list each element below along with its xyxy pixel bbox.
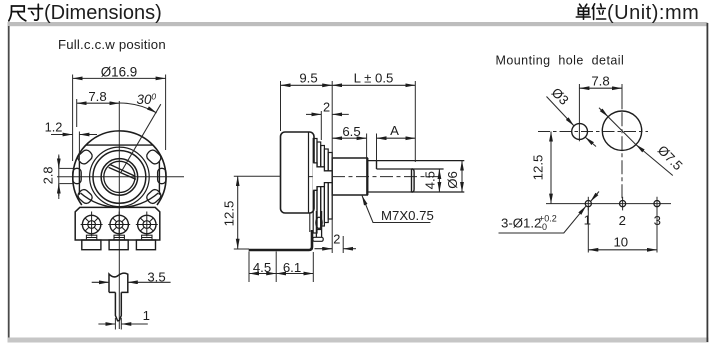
holes row line xyxy=(546,203,671,205)
stair plate 5 xyxy=(328,153,332,220)
dim 1 ext lines xyxy=(114,318,116,330)
header left: hand-drawn 尺 glyph xyxy=(9,6,26,21)
dim O16.9 line xyxy=(73,77,166,79)
svg-text:12.5: 12.5 xyxy=(531,155,546,181)
body outer circle (clipped at block) xyxy=(73,131,166,205)
bottom-right notch xyxy=(145,188,163,206)
svg-text:2: 2 xyxy=(323,100,330,115)
dim 1 left arrow xyxy=(98,323,115,325)
header right: hand-drawn 单 glyph xyxy=(576,4,590,19)
ext line L/A right xyxy=(414,81,416,162)
dim O16.9 ext right xyxy=(165,75,167,151)
shaft flat step xyxy=(376,161,378,169)
slot line 1 xyxy=(110,164,136,176)
threaded bushing xyxy=(332,158,367,195)
30 degree arc with arrow xyxy=(119,103,156,113)
bushing neck white-out steps xyxy=(313,163,318,190)
rivet 2 xyxy=(108,212,130,237)
dim 2 top ext xyxy=(320,111,322,140)
svg-text:Ø6: Ø6 xyxy=(445,171,460,189)
bushing face thick edge xyxy=(366,158,368,195)
ext datum line xyxy=(331,81,333,253)
stair plate 4 xyxy=(324,149,328,223)
dim 2.8 top arrow xyxy=(58,156,60,168)
svg-text:10: 10 xyxy=(613,235,628,250)
ext line 9.5 left xyxy=(280,81,282,131)
svg-text:7.8: 7.8 xyxy=(88,89,106,104)
svg-text:12.5: 12.5 xyxy=(222,201,237,227)
svg-text:300: 300 xyxy=(137,92,157,108)
svg-text:2.8: 2.8 xyxy=(41,167,56,185)
shaft bottom edge and O6 ext xyxy=(367,191,464,193)
dim 7.8 ext xyxy=(76,99,78,127)
dim 2 top right arrow xyxy=(332,113,349,115)
dim 4.5 bottom line xyxy=(249,273,276,275)
stair plate 2 xyxy=(317,142,321,230)
shaft flat line and 4.5 ext xyxy=(377,168,444,170)
hole 1 xyxy=(585,197,591,211)
dim 1 right arrow xyxy=(121,323,148,325)
collar 3 xyxy=(142,235,152,240)
dim 7.8 ext left / small hole centerline xyxy=(578,84,580,141)
dim 9.5 line xyxy=(281,84,333,86)
stair plate 1 xyxy=(313,139,317,234)
rear terminal edge xyxy=(309,213,311,232)
svg-text:Ø16.9: Ø16.9 xyxy=(101,65,137,80)
dim 2 bottom left arrow xyxy=(315,248,333,250)
frame top gray bar xyxy=(8,22,708,26)
pin detail xyxy=(92,270,171,330)
hole 2 xyxy=(620,197,626,211)
cover bottom shallow arc xyxy=(81,193,159,208)
svg-text:2: 2 xyxy=(619,213,626,228)
svg-text:4.5: 4.5 xyxy=(253,260,271,275)
cover hole circle xyxy=(90,147,150,207)
dim 4.5/6.1 ext lines xyxy=(248,252,250,283)
holes horizontal centerline xyxy=(538,131,648,133)
dim 2.8 ext top xyxy=(60,167,74,169)
header left: hand-drawn 寸 glyph xyxy=(29,4,43,20)
collar 1 xyxy=(86,235,96,240)
dim A ext xyxy=(376,134,378,161)
svg-text:A: A xyxy=(390,123,399,138)
hole 3 xyxy=(654,197,660,211)
dim 2 top left arrow xyxy=(306,113,321,115)
slot line 2 xyxy=(109,167,136,179)
dim 4.5 line xyxy=(438,169,440,192)
O7.5 leader with diameter line xyxy=(599,108,608,117)
bottom-left notch xyxy=(76,188,94,206)
dim 2 bottom ext xyxy=(342,236,344,253)
side body xyxy=(281,132,315,213)
svg-text:6.1: 6.1 xyxy=(283,260,301,275)
O3 leader upper xyxy=(547,97,575,126)
dim 7.8 ext right xyxy=(621,84,623,109)
svg-text:3.5: 3.5 xyxy=(147,270,165,285)
dim 2.8 ext bottom xyxy=(60,183,74,185)
dim 2.8 vertical line xyxy=(58,155,60,200)
big hole O7.5 xyxy=(602,111,641,150)
dim 3.5 left arrow xyxy=(92,281,109,283)
front horizontal centerline xyxy=(57,176,184,178)
boss outer circle xyxy=(93,151,146,204)
dim 12.5 mount line xyxy=(550,132,552,204)
bushing neck step edges bottom xyxy=(313,183,332,191)
rivet terminals group xyxy=(81,212,158,250)
M7X0.75 leader xyxy=(362,196,430,223)
svg-text:L ± 0.5: L ± 0.5 xyxy=(354,71,394,86)
bent lead terminal xyxy=(249,230,312,250)
frame bottom gray bar xyxy=(8,338,709,343)
rivet 1 xyxy=(81,212,103,237)
left crimp capsule xyxy=(73,168,81,183)
pin shank xyxy=(115,292,121,320)
foot 3 xyxy=(136,240,155,250)
dim 12.5 bottom ext xyxy=(234,248,249,250)
svg-text:(Unit):mm: (Unit):mm xyxy=(607,2,699,24)
frame right border xyxy=(707,23,709,342)
big hole vertical centerline xyxy=(621,88,623,199)
dim 10 ext lines xyxy=(587,208,589,253)
pin tab outline xyxy=(109,273,128,292)
cover right flat xyxy=(158,161,160,195)
rivet 3 xyxy=(136,212,158,237)
foot 1 xyxy=(82,240,101,250)
dim 6.5 line xyxy=(332,137,366,139)
svg-text:Mounting hole detail: Mounting hole detail xyxy=(496,53,625,67)
small hole O3 xyxy=(572,124,588,140)
collar 2 xyxy=(114,235,124,240)
30 degree line xyxy=(121,104,161,172)
dim L line xyxy=(332,84,415,86)
svg-text:4.5: 4.5 xyxy=(423,171,438,189)
svg-text:3-Ø1.2: 3-Ø1.2 xyxy=(501,216,541,231)
dim 1.2 right arrow line xyxy=(79,134,97,136)
svg-text:1: 1 xyxy=(143,308,150,323)
eyelet terminal xyxy=(313,211,323,241)
side centerline xyxy=(308,176,439,178)
top-left notch xyxy=(76,148,94,166)
svg-text:Full.c.c.w position: Full.c.c.w position xyxy=(58,37,166,52)
svg-text:9.5: 9.5 xyxy=(299,71,317,86)
svg-text:7.8: 7.8 xyxy=(591,74,609,89)
shaft top edge and O6 ext xyxy=(367,160,464,162)
dim 2.8 bottom arrow xyxy=(58,184,60,196)
dim 6.1 line xyxy=(276,273,313,275)
dim 10 line xyxy=(588,249,657,251)
dim 6.5 ext xyxy=(366,134,368,158)
svg-text:2: 2 xyxy=(333,232,340,247)
svg-text:1: 1 xyxy=(584,213,591,228)
dim 7.8 line xyxy=(579,87,622,89)
foot 2 xyxy=(109,240,128,250)
terminal block xyxy=(75,207,160,240)
shaft end cap xyxy=(412,169,415,192)
cover left flat xyxy=(78,161,80,195)
svg-text:Ø7.5: Ø7.5 xyxy=(655,142,686,173)
svg-text:-0: -0 xyxy=(539,222,547,232)
dim A line xyxy=(377,137,416,139)
dim O16.9 ext left xyxy=(72,75,74,162)
dim 3.5 right arrow xyxy=(128,281,171,283)
svg-text:Ø3: Ø3 xyxy=(549,85,572,108)
side body inner line xyxy=(308,133,310,213)
dim 1.2 ext xyxy=(78,132,80,161)
right crimp capsule xyxy=(158,168,166,183)
cover top chord xyxy=(86,144,154,146)
dim 12.5 line xyxy=(237,176,239,249)
front vertical centerline xyxy=(118,101,120,329)
header right: hand-drawn 位 glyph xyxy=(592,4,606,20)
3-O1.2 leader xyxy=(499,206,587,233)
svg-text:(Dimensions): (Dimensions) xyxy=(44,2,162,24)
stair plate 3 xyxy=(321,146,325,227)
O3 leader lower xyxy=(585,137,596,146)
frame left border xyxy=(8,26,10,338)
dim O6 line xyxy=(461,161,463,192)
svg-text:1.2: 1.2 xyxy=(45,120,63,135)
dim 12.5 top ext xyxy=(234,175,280,177)
dim 2 bottom right arrow xyxy=(343,248,356,250)
top-right notch xyxy=(145,148,163,166)
svg-text:6.5: 6.5 xyxy=(342,124,360,139)
shaft inner circle xyxy=(104,161,135,192)
shaft outer circle xyxy=(101,159,138,196)
svg-text:M7X0.75: M7X0.75 xyxy=(381,208,434,223)
dim 7.8 line xyxy=(77,102,120,104)
bushing neck step edges top xyxy=(313,163,332,171)
dim 1.2 left arrow line xyxy=(51,134,73,136)
